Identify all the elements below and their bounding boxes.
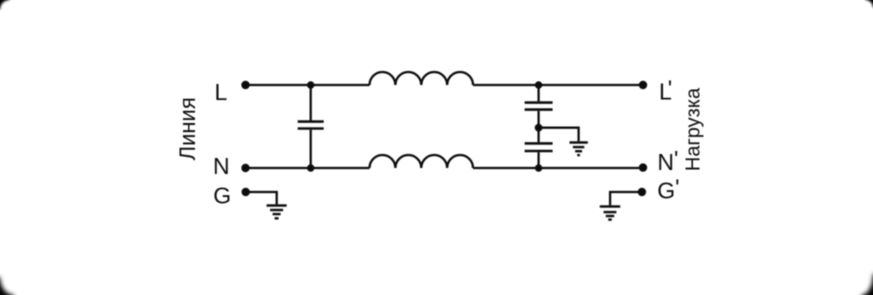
- svg-text:L': L': [659, 75, 672, 104]
- svg-text:G: G: [213, 183, 231, 209]
- svg-text:Нагрузка: Нагрузка: [682, 87, 704, 171]
- svg-text:N': N': [657, 146, 678, 175]
- svg-text:Линия: Линия: [175, 97, 200, 160]
- svg-text:L: L: [215, 79, 228, 105]
- svg-text:N: N: [213, 153, 230, 179]
- svg-text:G': G': [657, 174, 679, 203]
